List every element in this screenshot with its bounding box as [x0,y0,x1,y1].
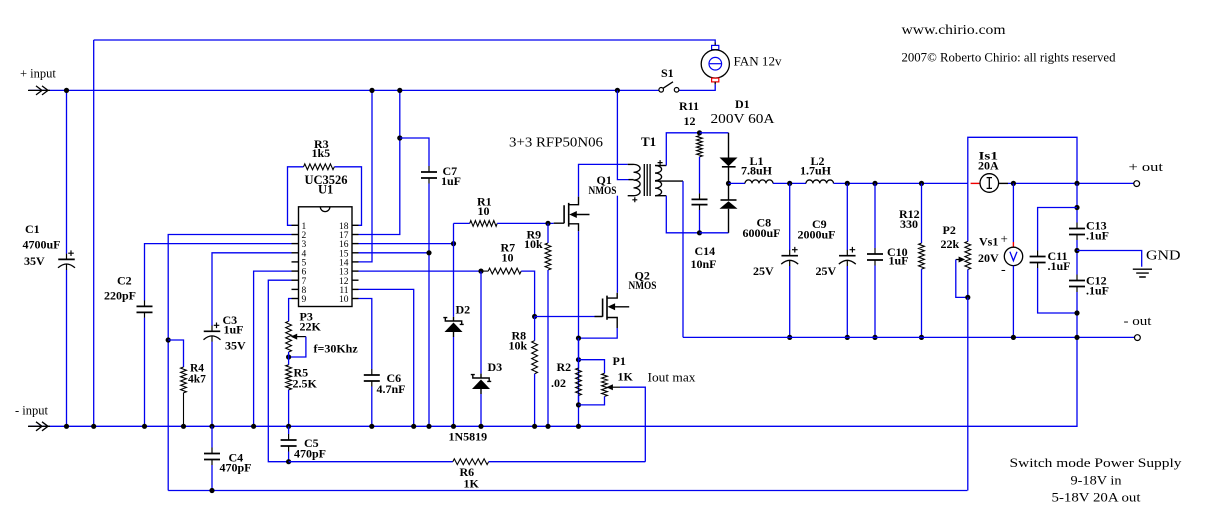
svg-text:9: 9 [302,295,307,305]
wire C10 bottom [874,266,876,338]
wire pin11 to ground [359,289,414,426]
svg-text:1uF: 1uF [889,254,909,268]
wire Is1 bypass loop [968,137,1077,183]
svg-text:Iout max: Iout max [648,370,697,385]
capacitor C7 [428,166,430,184]
svg-text:U1: U1 [318,183,333,197]
wire P2 top [967,183,969,241]
node C14 bottom [697,230,702,235]
wire R7 right to Q2 gate column [521,271,534,316]
capacitor C3 [211,326,213,342]
svg-text:25V: 25V [753,264,774,278]
U1 pin 2 stub [292,234,299,236]
capacitor C13 [1076,223,1078,241]
svg-text:11: 11 [339,286,348,296]
wire Q2 drain to T1 primary bottom [616,196,618,293]
svg-text:12: 12 [339,277,349,287]
node R11 top [697,130,702,135]
wire output ground rail [683,336,1135,338]
ground symbol [1133,269,1152,277]
svg-text:1N5819: 1N5819 [449,430,488,444]
svg-text:9-18V in: 9-18V in [1071,473,1123,488]
wire R11 to C14 [699,157,701,194]
node R12 top [919,181,924,186]
wire Q2 gate line [535,316,595,318]
C1 plus [68,250,74,256]
node pin16 R1 [451,241,456,246]
wire pin3 to C2 [145,244,292,301]
wire C4 top [211,426,213,447]
svg-text:6000uF: 6000uF [743,226,781,240]
node C2 ground [142,424,147,429]
node C4 bottom rail [209,488,214,493]
wire C13 to GND node [1076,240,1078,275]
wire R1 vertical to D2 [453,244,455,317]
node R9 ground [545,424,550,429]
T1 core [644,164,650,196]
wire D3 column top [480,271,482,374]
svg-text:3+3 RFP50N06: 3+3 RFP50N06 [509,136,603,151]
node Q2 source junction [576,336,581,341]
svg-text:T1: T1 [641,134,656,149]
wire D2 to ground [453,337,455,426]
U1 pin 11 stub [352,288,359,290]
svg-text:470pF: 470pF [220,461,252,475]
svg-text:22k: 22k [941,237,960,251]
wire P2 bottom [967,270,969,298]
svg-text:C2: C2 [117,274,132,288]
wire C7 branch [400,138,429,166]
U1 notch [320,207,330,212]
wire D3 to ground [480,394,482,426]
wire C1 bottom [66,270,68,427]
resistor R6 [453,459,489,465]
resistor R5 [286,365,292,390]
node C9 ground [845,335,850,340]
arrow - input [28,422,50,431]
svg-text:+ out: + out [1129,159,1164,174]
svg-text:.1uF: .1uF [1048,259,1071,273]
C3 plus [214,323,220,329]
capacitor C12 [1076,275,1078,293]
arrow + input [28,86,50,95]
node Vs1 top [1011,181,1016,186]
svg-text:1k5: 1k5 [312,146,331,160]
node C6 ground [369,424,374,429]
wire R9 to ground [547,270,549,426]
diode D1 freewheel [728,183,730,200]
node R8 ground [532,424,537,429]
wire C5 to R6 [289,461,453,463]
wire P1 bottom [579,396,605,405]
resistor R9 [545,243,551,270]
svg-text:f=30Khz: f=30Khz [314,342,359,356]
wire C8 bottom [789,266,791,337]
node C1 bottom [64,424,69,429]
svg-text:.02: .02 [551,376,566,390]
resistor R2 [576,368,582,396]
svg-text:1.7uH: 1.7uH [800,164,832,178]
wire C8 top [789,183,791,250]
wire R9 top lead [547,223,549,243]
node S1 branch [615,88,620,93]
wire R7 left lead [481,270,488,272]
U1 pin 5 stub [292,261,299,263]
svg-text:www.chirio.com: www.chirio.com [902,23,1006,38]
svg-text:D1: D1 [735,97,750,111]
svg-text:C1: C1 [25,222,40,236]
wire pin13 to R7 [359,270,482,272]
D3 cathode lead [480,389,482,394]
resistor R11 [697,136,703,157]
U1 pin 6 stub [292,270,299,272]
svg-text:D2: D2 [456,303,471,317]
svg-text:10nF: 10nF [691,257,717,271]
node pin15 C7 [426,250,431,255]
wire pin4 to C3 [212,253,292,326]
node C12 bottom [1074,310,1079,315]
wire P3 to R5 [288,352,290,365]
op-amp U1 UC3526 body [299,207,353,307]
node C8 ground [787,335,792,340]
resistor R12 [919,243,925,269]
node R4 ground [181,424,186,429]
node C1 top [64,88,69,93]
node R4 top junction [166,337,171,342]
wire center tap from +rail [617,90,628,179]
node C13 column top [1074,181,1079,186]
T1 secondary top lead [655,165,666,167]
wire R4 branch [168,340,183,367]
node pin13 R7 D3 [478,269,483,274]
U1 pin 15 stub [352,252,359,254]
diode D3 body [472,380,490,390]
wire Vs1 bottom [1012,266,1014,338]
svg-text:16: 16 [339,240,349,250]
node Q2 gate [532,314,537,319]
voltmeter Vs1 [1012,242,1014,247]
node C8 top [787,181,792,186]
inductor L2 [806,180,834,183]
svg-text:+: + [1001,231,1008,246]
wire R6 to P1 wiper column [489,461,646,463]
wire L2 to Is1 [834,182,968,184]
wire R4 bottom [183,393,185,427]
svg-text:7.8uH: 7.8uH [741,164,773,178]
wire C11 loop [1038,208,1077,251]
node C9 top [845,181,850,186]
node C10 top [872,181,877,186]
capacitor C8 [789,250,791,266]
potentiometer P3 [286,321,292,352]
wire D1 node to L1 [729,182,746,184]
svg-text:.1uF: .1uF [1086,284,1109,298]
wire pin2 to feedback node [168,235,291,341]
svg-text:Vs1: Vs1 [979,235,998,249]
wire S1 to fan segment [679,84,716,90]
C9 plus [850,247,856,253]
svg-text:10: 10 [339,295,349,305]
potentiometer P1 [602,373,608,396]
wire pin15 to C7 line [359,252,430,254]
resistor R8 [532,341,538,374]
T1 secondary bottom lead [655,195,666,197]
svg-text:4k7: 4k7 [188,374,206,386]
transistor Q1 symbol [564,203,569,227]
svg-text:330: 330 [900,217,918,231]
diode D2 body [445,323,463,333]
U1 pin 13 stub [352,270,359,272]
wire left vertical from top line to ground rail [93,40,95,426]
U1 pin 12 stub [352,279,359,281]
wire Is1 to +out [1008,182,1134,184]
wire pin16 to R1 [359,243,454,245]
wire R5 to ground [288,390,290,427]
wire R8 to ground [534,374,536,427]
svg-text:-: - [1001,263,1006,278]
wire Q1 drain up [579,164,628,196]
wire P2 wiper down [956,260,968,298]
T1 primary polarity [632,197,637,202]
resistor R4 [181,367,187,393]
capacitor C5 [288,434,290,452]
wire P3 wiper to bottom [289,337,306,357]
svg-text:Switch mode Power Supply: Switch mode Power Supply [1010,455,1183,470]
wire C1 top [66,90,68,253]
capacitor C14 [699,193,701,210]
node D1 output [726,181,731,186]
svg-text:10: 10 [478,204,490,218]
svg-text:2.5K: 2.5K [293,377,318,391]
fan motor M1 [714,43,716,46]
wire R8 top lead [534,317,536,341]
svg-text:470pF: 470pF [294,447,326,461]
svg-text:10k: 10k [524,237,543,251]
svg-text:P2: P2 [943,223,956,237]
node D3 ground [478,424,483,429]
T1 primary top lead [628,163,634,165]
node P2 bottom [965,295,970,300]
wire pin6 to ground [254,271,292,426]
capacitor C6 [371,369,373,387]
wire T1 secondary top up [666,133,699,166]
T1 secondary center tap lead [655,180,683,182]
node C3 ground [209,424,214,429]
wire pin9 to P3 [289,299,292,322]
P1 wiper arrow [610,386,620,388]
resistor R3 [304,164,335,170]
svg-text:18: 18 [339,222,349,232]
diode D2 [443,318,463,325]
wire R11 D1 top line [700,132,729,134]
wire C12 bottom [1076,292,1078,337]
potentiometer P2 [965,241,971,269]
wire R2 top lead [578,338,580,368]
wire main ground rail (- input to -out corner) [29,337,1077,426]
svg-text:12: 12 [684,114,696,128]
U1 pin 1 stub [292,224,299,226]
node P3 bottom [286,354,291,359]
wire pin10 to C6 [359,299,372,370]
node C10 ground [872,335,877,340]
node R12 ground [919,335,924,340]
U1 pin 16 stub [352,243,359,245]
wire C4 bottom [211,465,213,491]
wire T1 secondary bottom down [666,196,699,233]
U1 pin 3 stub [292,243,299,245]
svg-text:2000uF: 2000uF [798,228,836,242]
wire pin7 to C5 line [268,280,291,462]
svg-text:220pF: 220pF [104,289,136,303]
svg-text:+ input: + input [20,67,56,81]
D2 anode lead [453,317,455,321]
wire pin14 to +rail [359,90,373,262]
wire Vs1 top [1012,183,1014,242]
wire P1 top [579,360,605,374]
wire P1 wiper to R6 line [620,387,645,462]
P3 wiper arrow [295,336,306,338]
wire T1 secondary tap down to output ground [682,181,684,337]
wire GND stub [1077,251,1142,267]
svg-text:1uF: 1uF [441,174,461,188]
U1 pin 8 stub [292,288,299,290]
wire L1 to L2 [773,182,806,184]
T1 secondary polarity [658,160,663,165]
switch S1 [659,88,664,93]
svg-text:10: 10 [502,251,514,265]
svg-text:1uF: 1uF [224,323,244,337]
wire C13 column [1076,183,1078,222]
D3 anode lead [480,374,482,378]
capacitor C1 [66,254,68,270]
capacitor C4 [211,448,213,466]
wire C10 top [874,183,876,248]
svg-text:P1: P1 [613,354,626,368]
wire C2 bottom [144,318,146,427]
transformer T1 secondary [655,166,662,196]
wire C5 top [288,426,290,434]
node Q1 gate [545,221,550,226]
U1 pin 10 stub [352,298,359,300]
ammeter Is1 [971,182,980,184]
wire P2 feedback down [967,297,969,490]
node pin14 rail [369,88,374,93]
node Q1 source ground [576,424,581,429]
capacitor C2 [144,300,146,318]
wire C11 bottom [1038,268,1077,313]
svg-text:15: 15 [339,249,349,259]
wire Q2 source to Q1 source line [579,328,618,338]
resistor R7 [488,268,521,274]
svg-text:1K: 1K [464,477,480,491]
wire pin17 to +rail [359,90,400,234]
svg-text:20V: 20V [978,251,999,265]
wire C9 bottom [846,266,848,337]
U1 pin 9 stub [292,298,299,300]
wire feedback node down to bottom rail [167,340,169,491]
svg-text:14: 14 [339,259,349,269]
inductor L1 [745,180,773,183]
capacitor C9 [846,250,848,266]
svg-text:S1: S1 [661,66,674,80]
terminal + out [1134,181,1140,187]
wire C6 bottom [371,387,373,427]
U1 pin 7 stub [292,279,299,281]
U1 pin 18 stub [352,224,359,226]
D2 cathode lead [453,332,455,337]
svg-text:4700uF: 4700uF [23,238,61,252]
svg-text:22K: 22K [300,320,322,334]
node C13 top [1074,205,1079,210]
svg-text:FAN 12v: FAN 12v [734,54,782,69]
svg-text:.1uF: .1uF [1086,229,1109,243]
U1 pin 4 stub [292,252,299,254]
node R5 ground [286,424,291,429]
wire R1 left vertical [453,223,455,243]
T1 primary center tap lead [629,179,634,181]
node C7 branch [397,135,402,140]
wire Q1 source down [578,231,580,426]
svg-text:25V: 25V [816,264,837,278]
svg-text:13: 13 [339,268,349,278]
resistor R1 [470,221,498,227]
wire R1 to Q1 gate [497,222,554,224]
P2 wiper arrow [956,259,962,261]
C8 plus [792,247,798,253]
node R2 bottom [576,402,581,407]
svg-text:35V: 35V [24,254,45,268]
svg-text:D3: D3 [488,360,503,374]
diode D3 [471,375,491,382]
svg-text:1K: 1K [618,370,634,384]
svg-text:17: 17 [339,231,349,241]
wire R12 bottom [921,269,923,337]
wire R1 left lead [454,222,470,224]
wire top fan return line [94,40,716,43]
svg-text:- out: - out [1124,313,1152,328]
svg-text:2007© Roberto Chirio: all righ: 2007© Roberto Chirio: all rights reserve… [902,51,1117,65]
svg-text:5-18V 20A out: 5-18V 20A out [1052,490,1141,505]
wire R12 top lead [921,183,923,243]
node left vertical at ground rail [91,424,96,429]
svg-text:35V: 35V [225,339,246,353]
node C13 column ground [1074,335,1079,340]
node pin11 ground [411,424,416,429]
node pin6 ground [251,424,256,429]
svg-text:NMOS: NMOS [629,278,657,292]
wire C7 bottom to ground [428,184,430,427]
wire C3 bottom [211,342,213,427]
transformer T1 primary [634,164,641,195]
node R2 top [576,357,581,362]
node D2 ground [451,424,456,429]
svg-text:200V 60A: 200V 60A [711,112,776,127]
svg-text:10k: 10k [509,339,528,353]
wire R2 bottom lead [578,396,580,405]
diode D1 rectifier [728,133,730,158]
wire R3 right [334,167,361,226]
svg-text:NMOS: NMOS [589,183,617,197]
wire bottom line to D1 [700,232,729,234]
svg-text:- input: - input [15,404,49,418]
node GND [1074,248,1079,253]
svg-text:GND: GND [1146,249,1181,264]
wire feedback bottom rail [168,490,967,492]
terminal - out [1135,335,1141,341]
transistor Q2 symbol [603,296,607,320]
wire +input rail [29,89,659,91]
wire C5 bottom [288,452,290,462]
